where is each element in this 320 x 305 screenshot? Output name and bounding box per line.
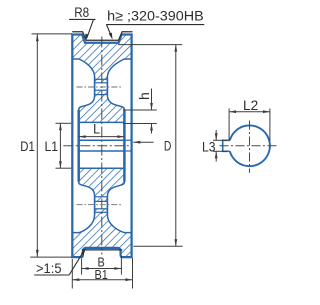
svg-text:D: D xyxy=(164,138,172,154)
side view horizontal axis xyxy=(220,145,278,147)
lower web lightening hole (white gap) xyxy=(95,197,108,215)
upper web lightening hole (white gap) xyxy=(95,77,108,95)
svg-text:D1: D1 xyxy=(20,138,35,154)
dimension B xyxy=(82,255,122,274)
dimension L2 xyxy=(229,97,270,141)
hub end faces (bold) xyxy=(77,110,80,182)
dimension D1 xyxy=(20,34,72,257)
dimension B1 xyxy=(72,258,132,289)
wheel vertical centerline xyxy=(101,37,103,255)
svg-text:L1: L1 xyxy=(45,138,59,154)
dimension L xyxy=(79,120,125,138)
svg-text:>1:5: >1:5 xyxy=(36,260,62,276)
dimension D xyxy=(118,45,183,247)
keyway slot stubs through rim xyxy=(126,139,131,141)
dimension L3 xyxy=(202,130,227,162)
dimension L1 xyxy=(45,123,72,168)
hardening mark bottom tread xyxy=(82,249,123,251)
side view vertical axis xyxy=(249,121,251,173)
side view: keyway slot xyxy=(223,140,230,151)
svg-text:B1: B1 xyxy=(95,267,108,282)
keyway slot edges in section xyxy=(79,139,124,141)
wheel lower half section (hatched) xyxy=(72,168,131,257)
svg-text:L: L xyxy=(93,120,100,136)
hardening mark top (flange-tread-flange) xyxy=(72,32,132,41)
side view: bore circle xyxy=(230,125,270,166)
upper hole axis xyxy=(77,86,123,88)
taper note >1:5 with leader xyxy=(34,248,86,276)
svg-text:h≥ ;320-390HB: h≥ ;320-390HB xyxy=(107,8,204,24)
dimension h xyxy=(123,89,157,134)
svg-text:h: h xyxy=(136,92,152,100)
leader arrow at axis to rim edge xyxy=(133,141,153,144)
main horizontal axis xyxy=(63,145,131,147)
lower hole axis xyxy=(77,204,123,206)
svg-text:L2: L2 xyxy=(243,97,258,113)
wheel upper half section (hatched) xyxy=(72,35,131,123)
label R8 with leader xyxy=(69,4,95,41)
hardness note with leader xyxy=(106,8,204,40)
wheel outer outline (bold) xyxy=(72,35,131,258)
svg-text:L3: L3 xyxy=(202,139,216,155)
svg-text:R8: R8 xyxy=(74,4,89,20)
